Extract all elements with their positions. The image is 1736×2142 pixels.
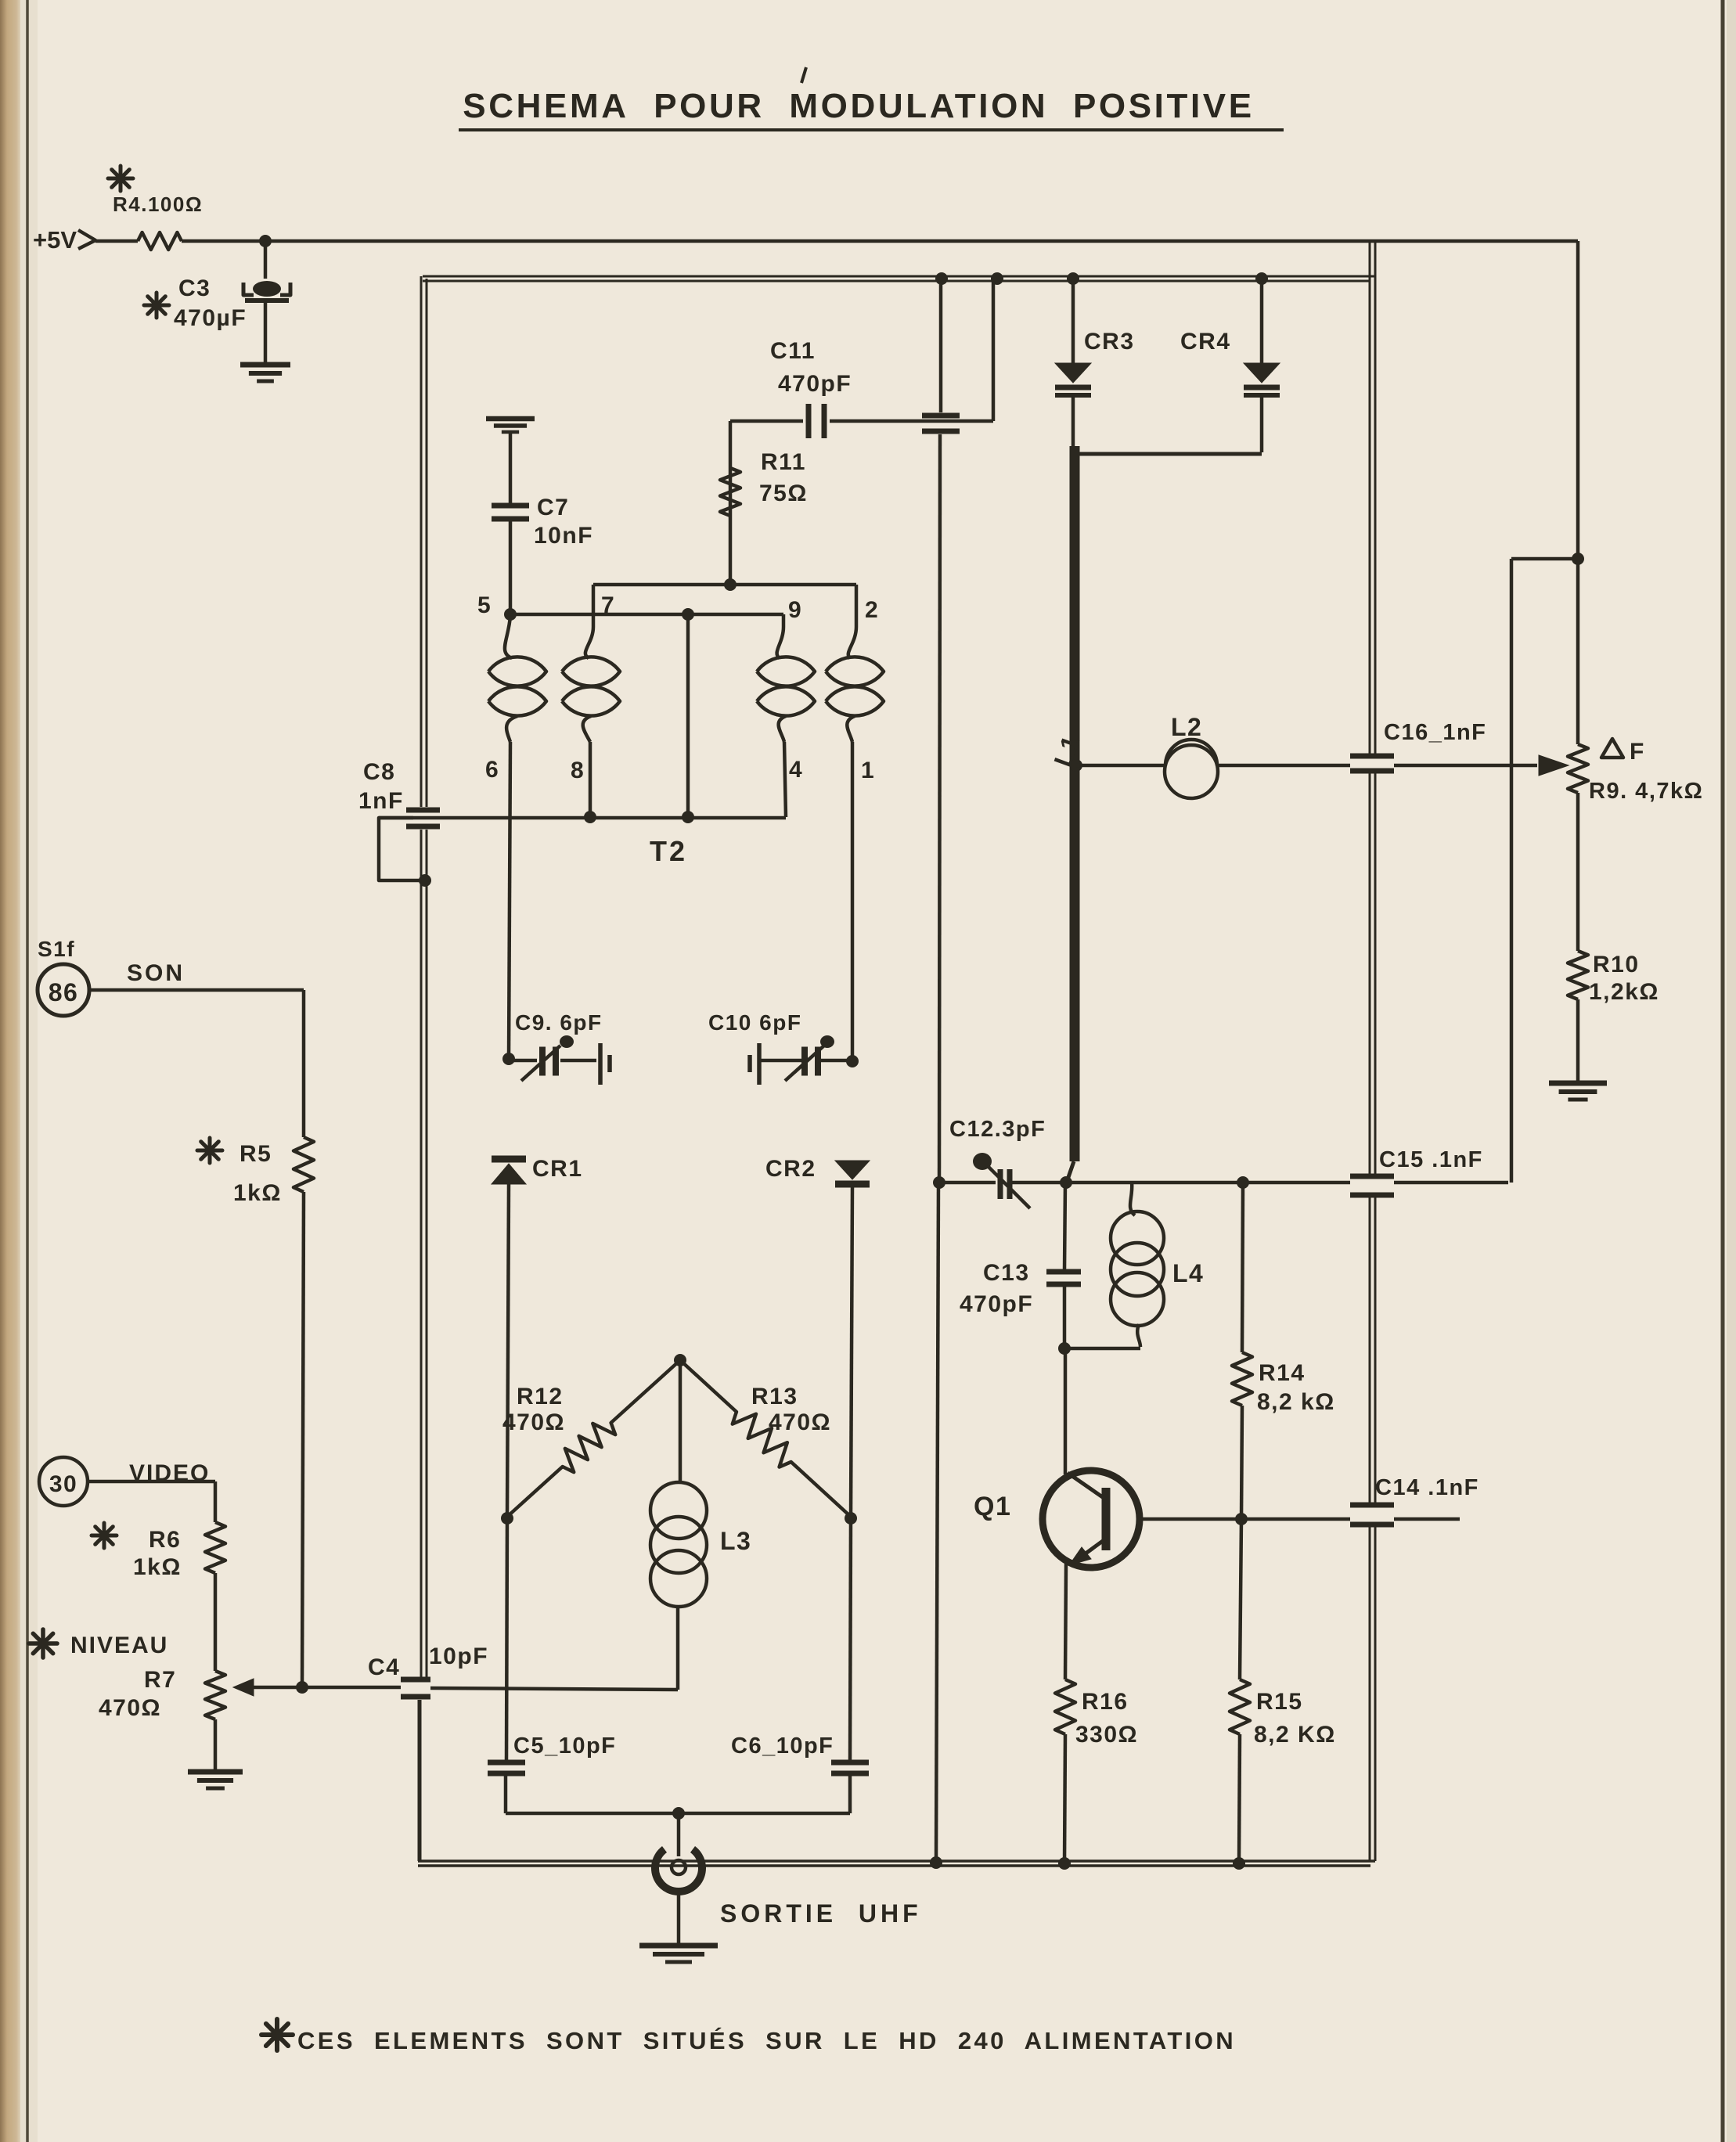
wire L1 to L2 [1076, 764, 1165, 768]
node UHF tap [672, 1807, 685, 1820]
svg-text:R6: R6 [149, 1527, 181, 1553]
node R12 bottom [501, 1512, 513, 1525]
R9 wiper arrow [1539, 755, 1569, 776]
bypass junction node [419, 874, 431, 887]
svg-text:470pF: 470pF [778, 371, 852, 397]
svg-text:8,2 kΩ: 8,2 kΩ [1257, 1389, 1335, 1415]
svg-text:470pF: 470pF [960, 1291, 1033, 1317]
L1 lower thin lead [1067, 1161, 1074, 1182]
wire bus down to feedthrough cap [939, 279, 943, 412]
svg-text:75Ω: 75Ω [759, 481, 808, 506]
node center tap bottom [682, 811, 694, 823]
R15 top wire [1240, 1519, 1241, 1679]
wire C6 to link [848, 1775, 852, 1813]
svg-text:330Ω: 330Ω [1075, 1722, 1138, 1748]
wire to potentiometer R9 [1576, 559, 1580, 744]
inner top bus (doubled line) [423, 275, 1375, 278]
svg-text:1kΩ: 1kΩ [233, 1180, 282, 1206]
resistor R14 [1232, 1352, 1252, 1406]
inductor L2 loop [1165, 740, 1217, 765]
node CR3 [1067, 272, 1079, 285]
svg-text:5: 5 [477, 592, 492, 618]
wire C11 to riser [830, 419, 993, 423]
svg-text:1,2kΩ: 1,2kΩ [1589, 979, 1659, 1005]
node center tap top [682, 608, 694, 621]
svg-text:C16_1nF: C16_1nF [1384, 720, 1486, 745]
svg-text:C3: C3 [178, 275, 211, 301]
svg-text:R9. 4,7kΩ: R9. 4,7kΩ [1589, 779, 1703, 804]
capacitor C5 plates [488, 1760, 525, 1766]
inductor L4 [1111, 1211, 1164, 1265]
svg-text:R13: R13 [751, 1384, 798, 1409]
svg-text:470µF: 470µF [174, 305, 247, 331]
Q1 emitter stroke [1074, 1539, 1106, 1562]
svg-text:NIVEAU: NIVEAU [70, 1633, 168, 1658]
left box line lower (doubled) [420, 830, 423, 1678]
capacitor C13 top lead [1064, 1183, 1065, 1270]
R14 bottom wire [1241, 1406, 1242, 1519]
asterisk near C3 [144, 304, 169, 308]
wire +5V to R4 [95, 239, 138, 243]
svg-text:1nF: 1nF [358, 788, 404, 814]
node base/R14/R15 [1235, 1513, 1248, 1525]
svg-text:CR4: CR4 [1180, 329, 1231, 355]
svg-text:C6_10pF: C6_10pF [731, 1733, 834, 1759]
wire VIDEO [88, 1480, 215, 1484]
pin 8 wire [589, 742, 592, 817]
asterisk near R6 [92, 1534, 117, 1538]
wire to UHF connector [677, 1813, 681, 1856]
svg-text:R4.100Ω: R4.100Ω [113, 193, 203, 216]
svg-text:L3: L3 [720, 1527, 751, 1555]
node C10 right [846, 1055, 859, 1067]
svg-text:CR3: CR3 [1084, 329, 1135, 355]
svg-text:8,2 KΩ: 8,2 KΩ [1254, 1722, 1336, 1748]
svg-text:470Ω: 470Ω [502, 1409, 565, 1435]
capacitor C3 bottom plate [245, 298, 289, 303]
capacitor C6 plates [831, 1760, 869, 1766]
resistor R12 diagonal [507, 1360, 680, 1517]
wire SON [89, 988, 304, 992]
node L2 line on L1 [1070, 759, 1082, 772]
junction node C3 tap [259, 235, 272, 247]
wire L4/C13 node link [1064, 1347, 1140, 1351]
wire CR2 node to C6 [850, 1518, 851, 1761]
label delta-F [1601, 739, 1623, 758]
page border line right [1721, 0, 1725, 2142]
wire R9 to R10 [1576, 793, 1580, 951]
svg-text:S1f: S1f [38, 937, 75, 961]
varicap CR4 [1244, 363, 1280, 383]
svg-text:R7: R7 [144, 1667, 176, 1693]
capacitor C7 plates [492, 503, 529, 509]
svg-text:Q1: Q1 [974, 1492, 1011, 1521]
wiper wire to C4 [252, 1686, 401, 1690]
left box line upper (doubled) [420, 276, 423, 807]
trimmer C9 [509, 1059, 537, 1063]
Q1 base wire [1140, 1517, 1350, 1521]
svg-text:C11: C11 [770, 338, 816, 364]
asterisk near R5 [197, 1149, 222, 1153]
riser up to bus [992, 279, 996, 421]
ground above C7 [486, 416, 535, 422]
capacitor C16 plates [1350, 754, 1394, 759]
svg-text:7: 7 [601, 592, 615, 618]
capacitor C3 electrolytic top plate [253, 281, 281, 297]
T2 winding 7-8 [585, 585, 593, 658]
svg-text:C9. 6pF: C9. 6pF [515, 1010, 603, 1035]
Q1 collector stroke [1068, 1473, 1106, 1499]
wire to C3 [264, 241, 268, 279]
asterisk NIVEAU [29, 1641, 57, 1646]
C13 bottom lead [1063, 1287, 1067, 1348]
svg-text:1kΩ: 1kΩ [133, 1554, 182, 1580]
svg-text:C5_10pF: C5_10pF [513, 1733, 616, 1759]
diode CR2 [835, 1161, 870, 1179]
svg-text:C14 .1nF: C14 .1nF [1375, 1475, 1479, 1500]
node C9 left [502, 1053, 515, 1065]
capacitor C13 plates [1046, 1269, 1081, 1275]
svg-text:T2: T2 [650, 835, 687, 867]
svg-text:4: 4 [789, 757, 803, 783]
resistor R11 [720, 468, 740, 516]
center tap wire [686, 614, 690, 817]
CR4 top lead [1260, 279, 1264, 363]
node pin5 [504, 608, 517, 621]
node C11 riser [991, 272, 1003, 285]
svg-text:10nF: 10nF [534, 523, 593, 549]
svg-text:R16: R16 [1082, 1689, 1129, 1715]
svg-text:470Ω: 470Ω [769, 1409, 831, 1435]
svg-text:CR2: CR2 [765, 1156, 816, 1182]
L3 bottom lead [676, 1607, 680, 1690]
capacitor C11 plates [806, 404, 812, 438]
C5-C6 link wire [506, 1812, 850, 1816]
wire R10 to ground [1576, 999, 1580, 1083]
C8 bypass wire [379, 818, 425, 880]
wire R7 to ground [214, 1719, 218, 1771]
wire CR4 to L1 [1078, 452, 1262, 456]
CR3 lead to L1 [1071, 395, 1075, 448]
svg-text:R10: R10 [1593, 952, 1640, 977]
svg-text:R5: R5 [240, 1141, 272, 1167]
wire L2 to C16 [1217, 764, 1350, 768]
+5V arrow [78, 230, 95, 249]
wire CR1 down [507, 1184, 509, 1517]
capacitor C14 plates [1350, 1503, 1394, 1508]
svg-text:1: 1 [861, 758, 875, 783]
wire C7 to pin5 [509, 521, 513, 614]
wire CR2 down [851, 1186, 852, 1517]
varicap CR3 [1055, 363, 1091, 383]
ground of R10 [1549, 1081, 1607, 1086]
resistor R4 (horizontal zigzag) [138, 232, 182, 250]
wire down to bottom bus [936, 1183, 938, 1861]
svg-text:+5V: +5V [33, 226, 77, 254]
svg-text:C13: C13 [983, 1260, 1030, 1286]
right bus segment C15 to C14 [1369, 1197, 1371, 1503]
connector S1f/86 [38, 964, 89, 1016]
ground of R7 [188, 1769, 243, 1775]
wire C12 to L1 node [1008, 1181, 1066, 1185]
capacitor C8 plates [406, 808, 440, 813]
svg-text:C10 6pF: C10 6pF [708, 1010, 801, 1035]
node on bottom bus [930, 1856, 942, 1869]
C12 line left segment [939, 1181, 996, 1185]
resistor R6 [205, 1522, 225, 1573]
pin 6 wire down [509, 742, 510, 1059]
wire node to Q1 collector [1064, 1348, 1068, 1474]
svg-text:CR1: CR1 [532, 1156, 583, 1182]
outer rail right corner down [1576, 241, 1580, 559]
page border line left [26, 0, 29, 2142]
wire C16 to R9 arrow [1394, 764, 1537, 768]
wire ground to C7 [509, 432, 513, 504]
CR3 top lead [1071, 279, 1075, 363]
node on C12 line [933, 1176, 945, 1189]
resistor R16 [1055, 1679, 1075, 1734]
connector SORTIE UHF outer [655, 1849, 702, 1892]
node C13/L4 [1058, 1342, 1071, 1355]
svg-text:10pF: 10pF [429, 1643, 488, 1669]
pins 5-7-9 wire [510, 613, 783, 617]
node on C4 line [296, 1681, 308, 1694]
inductor L4 top lead [1130, 1183, 1135, 1215]
right bus vertical (doubled) segment rail to C16 [1369, 243, 1371, 756]
svg-text:R11: R11 [761, 449, 806, 475]
resistor R10 [1568, 951, 1588, 999]
ground of C3 [240, 362, 290, 368]
right bus segment C16 to C15 [1369, 773, 1371, 1175]
wire down to C15 line [1510, 559, 1514, 1183]
resistor R15 [1230, 1679, 1250, 1734]
trimmer C10 [747, 1055, 752, 1072]
wire C4 to L3 bottom [430, 1688, 678, 1690]
stray accent over title [801, 67, 806, 83]
svg-text:SCHEMA POUR MODULATION POSI: SCHEMA POUR MODULATION POSITIVE [463, 87, 1254, 125]
T2 winding 5-6 [505, 616, 512, 658]
svg-text:L4: L4 [1172, 1259, 1204, 1287]
svg-text:86: 86 [49, 978, 79, 1006]
wire R11 to T2 top bus [729, 516, 733, 585]
potentiometer R7 body [205, 1671, 225, 1719]
wire feedthrough cap down to C12 line [939, 434, 940, 1183]
trimmer C12 [998, 1169, 1003, 1199]
svg-text:F: F [1630, 739, 1645, 765]
svg-text:C7: C7 [537, 495, 569, 520]
node R13 bottom [845, 1512, 857, 1525]
svg-text:CES ELEMENTS SONT SITUÉS S: CES ELEMENTS SONT SITUÉS SUR LE HD 240 A… [297, 2027, 1236, 2054]
+5V rail wire to right edge [182, 239, 1578, 243]
svg-text:R14: R14 [1259, 1360, 1306, 1386]
wire C5 to link [504, 1775, 508, 1813]
pin 1 wire down [851, 742, 855, 1061]
wire R11 top corner [729, 421, 733, 516]
svg-text:9: 9 [788, 597, 802, 623]
connector 30 [39, 1457, 88, 1506]
R15 bottom wire [1239, 1734, 1240, 1863]
svg-text:C12.3pF: C12.3pF [949, 1117, 1046, 1142]
Q1 base bar [1102, 1488, 1111, 1550]
L4 bottom lead [1137, 1324, 1140, 1347]
svg-text:2: 2 [865, 597, 879, 623]
svg-text:SORTIE UHF: SORTIE UHF [720, 1899, 922, 1928]
right bus segment C14 to bottom bus [1369, 1527, 1371, 1861]
connector inner pin [672, 1860, 686, 1874]
feedthrough capacitor plates (unlabeled) [922, 413, 960, 419]
asterisk near R4 [108, 177, 133, 181]
inductor L1 (thick line) [1070, 446, 1080, 1161]
diode CR1 [492, 1156, 526, 1163]
wire C4 down to bottom bus [418, 1700, 422, 1861]
R7 wiper arrow [233, 1679, 254, 1696]
svg-text:R15: R15 [1256, 1689, 1303, 1715]
wire C3 to ground [264, 302, 268, 365]
T2 bottom bus [379, 816, 786, 820]
svg-text:8: 8 [571, 758, 585, 783]
T2 winding 9-4 [777, 614, 783, 658]
Q1 emitter arrowhead [1069, 1547, 1091, 1565]
title underline [459, 128, 1284, 131]
node CR4 [1255, 272, 1268, 285]
node right link [1572, 553, 1584, 565]
svg-text:C15 .1nF: C15 .1nF [1379, 1147, 1483, 1172]
wire R5 down to C4 line [302, 1192, 304, 1687]
wire connector to ground [677, 1892, 681, 1945]
transistor Q1 circle [1043, 1471, 1140, 1568]
T2 winding 2-1 [848, 585, 856, 658]
svg-text:R12: R12 [517, 1384, 564, 1409]
svg-text:L2: L2 [1171, 713, 1202, 741]
wire R6 to R7 [214, 1573, 218, 1671]
inductor L3 [650, 1482, 707, 1539]
node mid feedthrough [935, 272, 948, 285]
svg-text:C4: C4 [368, 1654, 400, 1680]
L3 top lead [679, 1360, 683, 1484]
Q1 emitter wire [1065, 1564, 1066, 1679]
wire link to inner right bus [1511, 557, 1578, 561]
node R14 top [1237, 1176, 1249, 1189]
asterisk bottom note [261, 2032, 293, 2037]
svg-text:C8: C8 [363, 759, 395, 785]
node apex [674, 1354, 686, 1366]
bottom bus (doubled line) [418, 1859, 1375, 1863]
svg-text:SON: SON [127, 960, 185, 986]
potentiometer R9 body [1568, 744, 1588, 793]
pin 4 wire [784, 742, 786, 817]
node L1 bottom [1060, 1176, 1072, 1189]
wire CR1 node to C5 [506, 1518, 507, 1761]
capacitor C15 plates [1350, 1174, 1394, 1179]
ground of connector [639, 1943, 718, 1949]
capacitor C4 plates [401, 1677, 430, 1683]
svg-text:6: 6 [485, 757, 499, 783]
R16 bottom wire [1064, 1734, 1065, 1863]
main line to right [1066, 1181, 1350, 1185]
svg-text:30: 30 [49, 1471, 77, 1497]
svg-text:470Ω: 470Ω [99, 1695, 161, 1721]
R14 top wire [1242, 1183, 1243, 1352]
resistor R5 [294, 1137, 314, 1192]
T2 top bus [593, 583, 856, 587]
CR4 lead down [1260, 395, 1264, 452]
resistor R13 diagonal [680, 1360, 851, 1517]
